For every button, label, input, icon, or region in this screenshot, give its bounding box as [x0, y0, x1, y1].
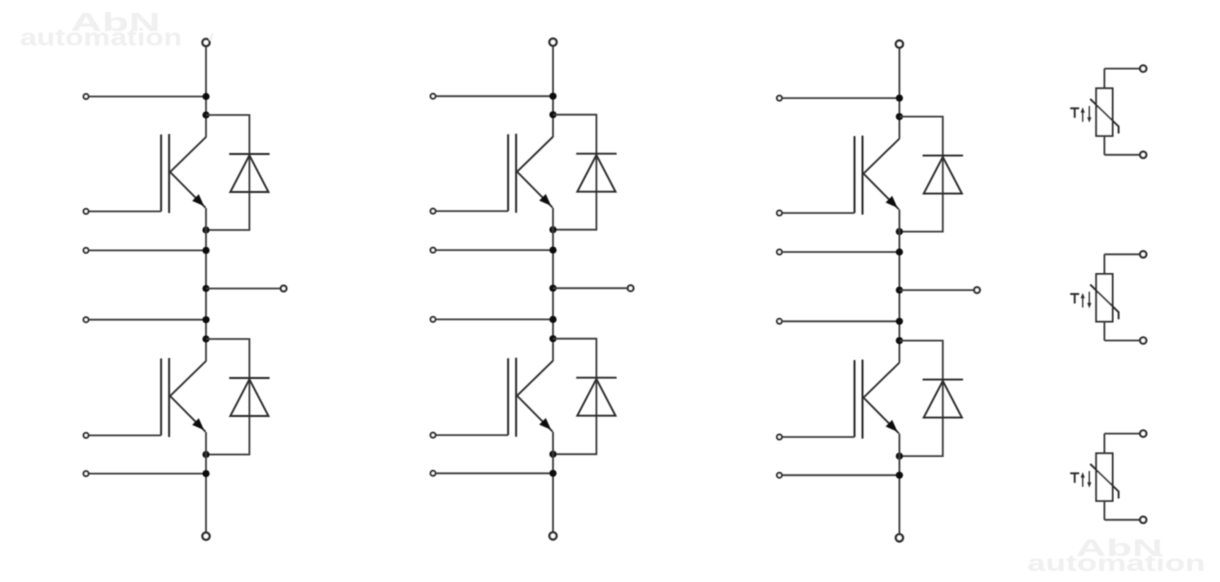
IGBT Q3 collector lead	[517, 137, 553, 172]
wire	[206, 115, 249, 230]
terminal N module 3	[896, 534, 903, 541]
wire	[783, 97, 900, 99]
thermistor TH2 strike	[1090, 285, 1118, 320]
wire	[1103, 322, 1105, 341]
label T thermistor TH1	[1070, 108, 1079, 118]
wire	[782, 212, 854, 214]
IGBT Q2 gate bar	[160, 359, 162, 436]
diode D5 triangle	[924, 157, 962, 194]
node	[896, 228, 903, 235]
node	[549, 226, 556, 233]
IGBT Q4 emitter arrow	[539, 418, 551, 430]
terminal gate Q3	[431, 209, 436, 214]
wire	[436, 318, 553, 320]
diode D5 cathode bar	[923, 155, 963, 157]
node	[896, 113, 903, 120]
thermistor TH3 strike	[1090, 464, 1118, 499]
IGBT Q5 collector lead	[864, 139, 900, 174]
terminal 1 module 3	[777, 96, 782, 101]
node	[549, 451, 556, 458]
label T thermistor TH3	[1070, 473, 1079, 483]
wire	[436, 434, 508, 436]
icon up arrow	[1081, 107, 1085, 122]
IGBT Q5 gate bar	[854, 136, 856, 213]
wire	[899, 341, 942, 457]
wire	[783, 251, 900, 253]
wire	[205, 432, 207, 533]
wire	[205, 47, 207, 138]
IGBT Q4 collector lead	[517, 361, 553, 396]
watermark AbN top-left	[70, 7, 160, 37]
diode D1 triangle	[230, 155, 268, 192]
IGBT Q6 body bar	[862, 360, 864, 439]
IGBT Q5 body bar	[862, 136, 864, 215]
thermistor TH1 strike	[1090, 99, 1118, 134]
node	[202, 247, 209, 254]
IGBT Q4 gate bar	[507, 358, 509, 435]
terminal 3 module 1	[84, 317, 89, 322]
terminal 1 module 2	[431, 94, 436, 99]
icon down arrow	[1087, 106, 1091, 123]
wire	[436, 210, 508, 212]
terminal OUT module 1	[281, 286, 287, 292]
IGBT Q6 emitter arrow	[886, 420, 898, 432]
terminal 4 module 3	[777, 473, 782, 478]
terminal 1 module 1	[84, 94, 89, 99]
IGBT Q6 collector lead	[864, 363, 900, 398]
terminal gate Q6	[777, 435, 782, 440]
IGBT Q3 body bar	[515, 134, 517, 213]
IGBT Q5 emitter arrow	[886, 196, 898, 208]
node	[549, 316, 556, 323]
wire	[1104, 68, 1139, 70]
node	[896, 453, 903, 460]
wire	[899, 289, 973, 291]
wire	[206, 288, 280, 290]
terminal gate Q4	[431, 433, 436, 438]
node	[896, 248, 903, 255]
wire	[1103, 434, 1105, 454]
diode D4 triangle	[577, 379, 615, 416]
wire	[89, 434, 161, 436]
IGBT Q3 emitter arrow	[539, 194, 551, 206]
terminal N module 1	[202, 533, 209, 540]
diode D6 cathode bar	[923, 379, 963, 381]
terminal P module 1	[202, 39, 209, 46]
wire	[553, 115, 596, 230]
terminal thermistor TH3 top	[1140, 430, 1146, 436]
node	[202, 93, 209, 100]
wire	[1103, 69, 1105, 89]
IGBT Q1 body bar	[168, 134, 170, 213]
thermistor TH2 body	[1096, 274, 1112, 322]
label T thermistor TH2	[1070, 294, 1079, 304]
wire	[1104, 253, 1139, 255]
icon up arrow	[1081, 472, 1085, 487]
terminal 2 module 1	[84, 248, 89, 253]
terminal OUT module 2	[628, 285, 634, 291]
IGBT Q3 gate bar	[507, 134, 509, 211]
terminal thermistor TH3 bottom	[1140, 517, 1146, 523]
icon down arrow	[1087, 292, 1091, 309]
node	[896, 472, 903, 479]
terminal 4 module 2	[431, 471, 436, 476]
terminal 2 module 2	[431, 248, 436, 253]
IGBT Q4 body bar	[515, 358, 517, 437]
diode D1 cathode bar	[229, 153, 269, 155]
terminal N module 2	[549, 532, 556, 539]
watermark automation top-left	[20, 25, 182, 52]
watermark automation bottom-right	[1027, 550, 1205, 576]
terminal OUT module 3	[974, 287, 980, 293]
wire	[898, 210, 900, 363]
node	[202, 335, 209, 342]
terminal gate Q5	[777, 211, 782, 216]
IGBT Q2 body bar	[168, 358, 170, 437]
wire	[783, 320, 900, 322]
wire	[1104, 154, 1139, 156]
icon down arrow	[1087, 471, 1091, 488]
wire	[1103, 254, 1105, 274]
node	[549, 285, 556, 292]
wire	[89, 473, 206, 475]
wire	[899, 117, 942, 232]
wire	[89, 319, 206, 321]
wire	[552, 46, 554, 137]
wire	[206, 339, 249, 455]
IGBT Q1 collector lead	[170, 137, 206, 172]
node	[202, 316, 209, 323]
wire	[89, 249, 206, 251]
thermistor TH1 body	[1096, 88, 1112, 136]
terminal 3 module 3	[777, 319, 782, 324]
terminal gate Q2	[84, 433, 89, 438]
IGBT Q1 gate bar	[160, 135, 162, 212]
terminal thermistor TH2 bottom	[1140, 337, 1146, 343]
IGBT Q5 emitter lead	[864, 174, 899, 210]
wire	[1104, 519, 1139, 521]
IGBT Q2 emitter arrow	[192, 418, 204, 430]
IGBT Q6 emitter lead	[864, 398, 899, 434]
IGBT Q2 emitter lead	[170, 396, 205, 432]
terminal 2 module 3	[777, 250, 782, 255]
wire	[553, 287, 627, 289]
wire	[783, 474, 900, 476]
node	[202, 451, 209, 458]
node	[549, 93, 556, 100]
wire	[89, 210, 161, 212]
terminal thermistor TH2 top	[1140, 251, 1146, 257]
wire	[898, 434, 900, 535]
svg-text:automation: automation	[1027, 550, 1205, 576]
terminal P module 3	[896, 41, 903, 48]
svg-text:automation: automation	[20, 25, 182, 52]
terminal thermistor TH1 bottom	[1140, 152, 1146, 158]
IGBT Q1 emitter lead	[170, 172, 205, 208]
node	[202, 226, 209, 233]
node	[549, 247, 556, 254]
diode D3 cathode bar	[576, 153, 616, 155]
node	[896, 287, 903, 294]
wire	[898, 48, 900, 139]
node	[549, 470, 556, 477]
node	[202, 285, 209, 292]
wire	[782, 436, 854, 438]
node	[202, 111, 209, 118]
wire	[553, 339, 596, 455]
node	[549, 335, 556, 342]
wire	[89, 96, 206, 98]
terminal thermistor TH1 top	[1140, 65, 1146, 71]
wire	[1103, 136, 1105, 155]
wire	[436, 472, 553, 474]
diode D6 triangle	[924, 381, 962, 418]
IGBT Q3 emitter lead	[517, 172, 552, 208]
terminal 4 module 1	[84, 471, 89, 476]
wire	[436, 249, 553, 251]
IGBT Q6 gate bar	[854, 360, 856, 437]
wire	[552, 432, 554, 533]
terminal gate Q1	[84, 209, 89, 214]
IGBT Q2 collector lead	[170, 361, 206, 396]
terminal P module 2	[549, 39, 556, 46]
IGBT Q1 emitter arrow	[192, 194, 204, 206]
node	[549, 111, 556, 118]
node	[202, 470, 209, 477]
watermark AbN bottom-right	[1076, 535, 1163, 562]
wire	[552, 208, 554, 361]
watermark tick top-left	[210, 34, 213, 41]
icon up arrow	[1081, 293, 1085, 308]
wire	[1103, 501, 1105, 520]
diode D4 cathode bar	[576, 377, 616, 379]
diode D3 triangle	[577, 155, 615, 192]
wire	[205, 208, 207, 361]
node	[896, 337, 903, 344]
diode D2 cathode bar	[229, 377, 269, 379]
wire	[436, 95, 553, 97]
node	[896, 318, 903, 325]
node	[896, 95, 903, 102]
wire	[1104, 340, 1139, 342]
IGBT Q4 emitter lead	[517, 396, 552, 432]
thermistor TH3 body	[1096, 453, 1112, 501]
diode D2 triangle	[230, 379, 268, 416]
wire	[1104, 433, 1139, 435]
terminal 3 module 2	[431, 317, 436, 322]
